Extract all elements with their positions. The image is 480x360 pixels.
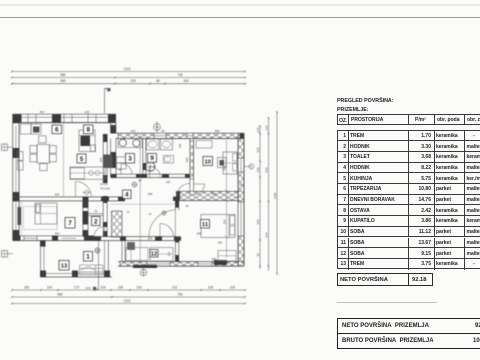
wall below toilet bathroom bbox=[111, 174, 190, 178]
dimension line bottom segments bbox=[11, 285, 246, 291]
wall left exterior bbox=[13, 114, 22, 240]
svg-text:100: 100 bbox=[136, 285, 142, 289]
svg-text:545: 545 bbox=[264, 232, 268, 237]
dimension line top 580 225 80 420 bbox=[11, 79, 246, 84]
svg-text:2: 2 bbox=[94, 218, 98, 225]
wall right exterior hatched bbox=[238, 133, 244, 266]
row 7 DNEVNI BORAVAK bbox=[338, 195, 480, 206]
svg-text:150: 150 bbox=[118, 285, 124, 289]
svg-text:90: 90 bbox=[119, 168, 122, 172]
door arc dining bbox=[76, 181, 92, 196]
wall interior y199 bbox=[13, 197, 125, 201]
wall bottom-right exterior hatched bbox=[118, 262, 244, 267]
pantry shelving room8 bbox=[79, 130, 96, 152]
row 2 HODNIK bbox=[338, 141, 480, 152]
row 4 HODNIK bbox=[338, 163, 480, 174]
wall top-left exterior bbox=[13, 114, 117, 123]
svg-text:300: 300 bbox=[185, 157, 189, 162]
room label 4 bbox=[123, 190, 132, 199]
svg-text:5: 5 bbox=[80, 156, 84, 163]
table title PREGLED POVRSINA bbox=[337, 98, 394, 104]
wall corridor left vertical bbox=[103, 134, 107, 237]
door threshold room11 terrace bbox=[214, 260, 227, 265]
corridor floor edge line bbox=[111, 203, 176, 205]
bed wardrobe room11 bbox=[201, 215, 236, 262]
svg-text:1310: 1310 bbox=[123, 67, 130, 71]
row 11 SOBA bbox=[338, 238, 480, 249]
room label 11 bbox=[201, 220, 210, 229]
room label 12 bbox=[150, 250, 158, 258]
faint divider line above summary table bbox=[337, 302, 437, 303]
svg-text:120: 120 bbox=[256, 127, 260, 132]
room label 13 bbox=[59, 261, 69, 271]
svg-text:415: 415 bbox=[131, 129, 136, 133]
svg-text:1210: 1210 bbox=[123, 299, 130, 303]
svg-text:9: 9 bbox=[150, 155, 154, 162]
svg-text:210: 210 bbox=[172, 285, 178, 289]
svg-text:▼0,199: ▼0,199 bbox=[100, 186, 110, 190]
svg-text:120: 120 bbox=[166, 180, 171, 184]
svg-text:93: 93 bbox=[95, 210, 98, 213]
door arc bathroom corridor exit bbox=[177, 184, 190, 197]
svg-text:760: 760 bbox=[177, 292, 183, 296]
svg-text:72: 72 bbox=[127, 210, 130, 214]
masonry flue hatched bbox=[112, 211, 123, 237]
dimension line top 580 730 bbox=[11, 73, 246, 78]
row 8 OSTAVA bbox=[338, 205, 480, 216]
svg-text:210: 210 bbox=[167, 251, 171, 256]
dimension line bottom 560 760 bbox=[11, 292, 246, 298]
room label 5 bbox=[77, 154, 86, 163]
svg-text:360: 360 bbox=[99, 157, 103, 162]
dimension line right outer total bbox=[273, 111, 278, 275]
sideboard top wall room6 bbox=[21, 124, 42, 134]
porch outline rooms 13 1 bbox=[40, 241, 112, 277]
neto povrsina total row bbox=[337, 273, 433, 286]
svg-text:7: 7 bbox=[68, 220, 72, 227]
room label 7 bbox=[65, 218, 75, 229]
wall bottom center interior bbox=[94, 236, 181, 240]
svg-text:298: 298 bbox=[148, 192, 153, 196]
svg-text:13: 13 bbox=[61, 264, 68, 270]
sofa rug radiator room7 bbox=[18, 203, 58, 230]
svg-text:300: 300 bbox=[40, 110, 45, 114]
svg-text:100: 100 bbox=[47, 285, 53, 289]
room label 2 bbox=[92, 217, 101, 226]
svg-text:170: 170 bbox=[74, 285, 80, 289]
door arc toilet bbox=[121, 164, 132, 175]
wall toilet left shaft bbox=[111, 139, 116, 177]
axis marker left lower bbox=[2, 251, 13, 258]
svg-text:540: 540 bbox=[256, 219, 260, 224]
svg-text:90: 90 bbox=[161, 129, 165, 133]
row 12 SOBA bbox=[338, 248, 480, 259]
dimension line right inner bbox=[256, 125, 261, 269]
svg-text:368: 368 bbox=[215, 129, 220, 133]
svg-text:11: 11 bbox=[202, 222, 209, 228]
section mark flag bottom with axis circle bbox=[85, 240, 99, 290]
row 10 SOBA bbox=[338, 227, 480, 238]
areas table header row bbox=[337, 114, 480, 125]
svg-text:290: 290 bbox=[212, 257, 217, 261]
svg-text:580: 580 bbox=[60, 73, 66, 77]
dimension line bottom total 1210 bbox=[11, 299, 246, 304]
row 3 TOALET bbox=[338, 152, 480, 163]
svg-text:90: 90 bbox=[139, 179, 142, 183]
bathroom room9 fixtures bbox=[146, 139, 174, 171]
svg-text:6: 6 bbox=[55, 127, 59, 134]
areas table body bbox=[337, 130, 480, 269]
sheet top border gray line bbox=[0, 17, 480, 18]
wall hall2 top bbox=[88, 214, 103, 216]
sheet top edge light line bbox=[0, 4, 480, 6]
row 6 TRPEZARIJA bbox=[338, 184, 480, 195]
room label 1 bbox=[84, 252, 93, 262]
axis marker left upper bbox=[2, 144, 13, 151]
svg-text:1: 1 bbox=[86, 254, 90, 261]
door arc bathroom bbox=[150, 167, 161, 178]
svg-text:520: 520 bbox=[256, 147, 260, 152]
room label 6 bbox=[52, 125, 62, 134]
svg-text:10: 10 bbox=[205, 159, 211, 165]
svg-text:200: 200 bbox=[212, 192, 217, 196]
svg-text:225: 225 bbox=[130, 79, 136, 83]
wall corridor room11 bbox=[175, 201, 179, 262]
svg-text:100: 100 bbox=[230, 285, 236, 289]
room label 8 bbox=[84, 125, 94, 134]
svg-text:180: 180 bbox=[24, 285, 30, 289]
door threshold dark bar bbox=[133, 265, 157, 268]
wall room9 room10 hatched bbox=[190, 139, 194, 192]
row 1 TREM bbox=[338, 131, 480, 142]
axis marker right wall bbox=[244, 164, 254, 169]
door arc hall2 bbox=[94, 227, 104, 237]
divider line rooms 6 and 5 bbox=[63, 123, 65, 197]
svg-text:16: 16 bbox=[149, 213, 152, 216]
svg-text:560: 560 bbox=[57, 292, 63, 296]
drain symbol bottom bbox=[140, 266, 146, 276]
dimension line right middle bbox=[264, 117, 269, 271]
svg-text:40: 40 bbox=[256, 253, 260, 257]
svg-text:100: 100 bbox=[100, 285, 106, 289]
kitchen counter room5 bbox=[70, 167, 105, 179]
dining table chairs bbox=[30, 136, 56, 171]
row 13 TREM bbox=[338, 259, 480, 270]
extra tiny labels corridor hub bbox=[127, 179, 223, 245]
dresser left wall bbox=[18, 152, 24, 171]
door axis symbol corridor bbox=[132, 182, 137, 187]
svg-text:100: 100 bbox=[85, 286, 90, 290]
section mark flag top bbox=[105, 89, 111, 114]
svg-text:205: 205 bbox=[148, 236, 153, 240]
svg-text:100: 100 bbox=[208, 285, 214, 289]
svg-text:36: 36 bbox=[186, 204, 189, 208]
porch steps bbox=[80, 265, 104, 275]
wall between toilet and bathroom bbox=[143, 139, 146, 174]
room label 3 bbox=[126, 154, 135, 164]
room label 10 bbox=[203, 157, 213, 166]
room label 9 bbox=[148, 154, 157, 163]
svg-text:12: 12 bbox=[151, 252, 157, 258]
svg-text:730: 730 bbox=[177, 73, 183, 77]
svg-text:3: 3 bbox=[128, 156, 132, 163]
wall room7 hall2 bbox=[83, 201, 89, 237]
svg-text:360: 360 bbox=[55, 232, 60, 236]
svg-text:420: 420 bbox=[183, 79, 189, 83]
door arc room11 bbox=[149, 210, 175, 237]
wall left of room12 bbox=[122, 241, 125, 262]
svg-text:100: 100 bbox=[256, 167, 260, 172]
interior dimension labels bbox=[40, 110, 243, 261]
door arc room12 bbox=[160, 224, 174, 237]
svg-text:8: 8 bbox=[86, 127, 90, 134]
row 5 KUHINJA bbox=[338, 173, 480, 184]
row 9 KUPATILO bbox=[338, 216, 480, 227]
svg-text:220: 220 bbox=[85, 110, 90, 114]
bed room10 bbox=[196, 141, 237, 175]
shower dark room3 bbox=[104, 155, 113, 169]
svg-text:260: 260 bbox=[222, 219, 226, 224]
toilet room3 fixtures bbox=[117, 139, 143, 169]
svg-text:580: 580 bbox=[60, 79, 66, 83]
level mark text bbox=[100, 182, 110, 190]
summary table bbox=[337, 318, 480, 349]
section line vertical through plan bbox=[139, 133, 141, 261]
corner jamb dark corridor bbox=[173, 197, 179, 201]
svg-text:525: 525 bbox=[264, 167, 268, 172]
interior vertical dimension line x226 bbox=[222, 140, 227, 258]
svg-text:295: 295 bbox=[197, 232, 202, 236]
svg-text:363: 363 bbox=[218, 241, 223, 245]
svg-text:4: 4 bbox=[125, 192, 129, 199]
table title PRIZEMLJE bbox=[337, 107, 369, 113]
svg-text:365: 365 bbox=[55, 192, 60, 196]
door arc room10 bbox=[194, 184, 205, 195]
vent chimney symbol top bbox=[154, 122, 161, 134]
svg-text:120: 120 bbox=[264, 125, 268, 130]
wall top-right exterior hatched bbox=[111, 133, 244, 138]
wall step bbox=[111, 123, 116, 134]
svg-text:80: 80 bbox=[156, 79, 160, 83]
door axis symbol corridor2 bbox=[162, 211, 167, 216]
svg-text:190: 190 bbox=[178, 143, 182, 148]
wall bottom room7 block bbox=[13, 236, 95, 241]
svg-text:1100: 1100 bbox=[273, 192, 277, 199]
dimension line top total 1310 bbox=[11, 67, 246, 72]
bed wardrobe room12 bbox=[126, 243, 173, 262]
wall room10 room11 hatched bbox=[176, 191, 241, 200]
